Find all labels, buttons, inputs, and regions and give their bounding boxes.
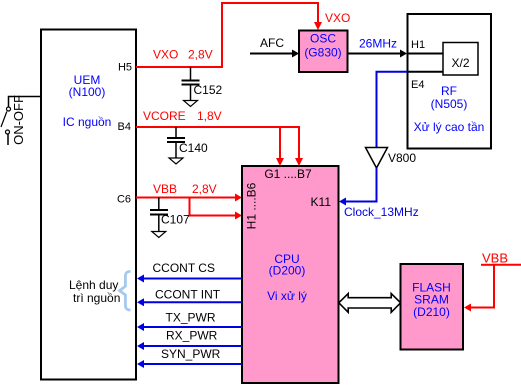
svg-text:K11: K11 <box>311 195 332 209</box>
IC N505 RF box <box>408 14 492 149</box>
label VBB 2,8V <box>153 182 217 196</box>
label VXO 2,8V <box>153 48 213 62</box>
svg-text:2,8V: 2,8V <box>188 48 213 62</box>
IC D200 CPU box <box>242 166 339 383</box>
pin B4 <box>118 121 131 133</box>
capacitor C140 <box>167 127 208 158</box>
svg-text:V800: V800 <box>388 151 416 165</box>
wire RX_PWR <box>137 329 242 351</box>
IC G830 OSC box <box>299 31 348 73</box>
svg-text:C152: C152 <box>194 83 223 97</box>
wire E4 to X/2 <box>408 71 444 73</box>
wire TX_PWR <box>137 311 242 332</box>
svg-text:G1 ....B7: G1 ....B7 <box>264 167 312 181</box>
svg-text:CCONT CS: CCONT CS <box>153 261 215 275</box>
svg-text:SYN_PWR: SYN_PWR <box>161 347 221 361</box>
wire CCONT CS <box>137 261 242 283</box>
svg-text:(N505): (N505) <box>431 97 468 111</box>
capacitor C107 <box>150 198 190 232</box>
wire SYN_PWR <box>137 347 242 368</box>
svg-text:trì nguồn: trì nguồn <box>73 291 120 305</box>
svg-text:E4: E4 <box>411 79 424 91</box>
bus arrow CPU-FLASH <box>339 294 401 313</box>
svg-text:RX_PWR: RX_PWR <box>166 329 218 343</box>
svg-text:H1 ....B6: H1 ....B6 <box>245 182 259 229</box>
switch S1 ON-OFF <box>1 95 40 145</box>
svg-text:VXO: VXO <box>153 48 178 62</box>
buffer V800 <box>366 148 417 169</box>
wire VXO net from H5 to OSC <box>136 3 322 67</box>
divider X/2 box <box>443 43 478 76</box>
pin H5 <box>118 62 132 74</box>
svg-text:H5: H5 <box>118 62 132 74</box>
capacitor C152 <box>182 67 223 101</box>
pin C6 <box>117 194 131 206</box>
IC D210 FLASH SRAM box <box>401 264 464 350</box>
IC U UEM (N100) box <box>41 30 136 380</box>
svg-text:AFC: AFC <box>260 36 284 50</box>
wire CCONT INT <box>137 288 242 307</box>
label VXO at OSC <box>325 11 350 25</box>
svg-text:2,8V: 2,8V <box>192 182 217 196</box>
wire 26MHz <box>348 37 408 58</box>
svg-text:C107: C107 <box>161 213 190 227</box>
svg-text:VBB: VBB <box>482 251 508 266</box>
svg-text:OSC: OSC <box>310 32 336 46</box>
svg-text:Xử lý cao tần: Xử lý cao tần <box>414 120 485 134</box>
svg-text:(N100): (N100) <box>69 85 106 99</box>
pin E4 <box>411 79 424 91</box>
wire Clock_13MHz to CPU K11 <box>339 168 419 219</box>
brace Lệnh duy trì nguồn <box>69 271 131 310</box>
wire VBB net from C6 to CPU <box>136 194 242 220</box>
svg-text:B4: B4 <box>118 121 131 133</box>
svg-text:VBB: VBB <box>153 182 177 196</box>
svg-text:26MHz: 26MHz <box>359 37 397 51</box>
wire E4 clock to buffer <box>377 72 408 147</box>
svg-text:RF: RF <box>441 84 457 98</box>
svg-text:Clock_13MHz: Clock_13MHz <box>344 205 419 219</box>
svg-text:C6: C6 <box>117 194 131 206</box>
label VCORE 1,8V <box>143 109 222 123</box>
svg-text:VXO: VXO <box>325 11 350 25</box>
svg-text:H1: H1 <box>411 39 425 51</box>
svg-text:(D210): (D210) <box>413 305 450 319</box>
svg-text:1,8V: 1,8V <box>197 109 222 123</box>
wire H1 to X/2 <box>408 53 444 55</box>
pin H1 <box>411 39 425 51</box>
svg-text:IC nguồn: IC nguồn <box>63 115 112 129</box>
svg-text:X/2: X/2 <box>451 56 469 70</box>
svg-text:CCONT INT: CCONT INT <box>155 288 221 302</box>
svg-text:(D200): (D200) <box>269 264 306 278</box>
wire AFC <box>250 36 299 58</box>
wire VCORE net from B4 to CPU <box>136 127 303 166</box>
ground at C140 <box>169 158 183 164</box>
svg-text:(G830): (G830) <box>304 46 341 60</box>
svg-text:Vi xử lý: Vi xử lý <box>267 289 307 303</box>
ground at C152 <box>184 101 198 107</box>
svg-text:ON-OFF: ON-OFF <box>11 95 26 145</box>
svg-text:TX_PWR: TX_PWR <box>166 311 216 325</box>
svg-text:VCORE: VCORE <box>143 109 186 123</box>
wire VBB to FLASH <box>464 251 521 312</box>
svg-text:Lệnh duy: Lệnh duy <box>69 278 118 292</box>
svg-text:C140: C140 <box>179 141 208 155</box>
ground at C107 <box>152 232 166 238</box>
